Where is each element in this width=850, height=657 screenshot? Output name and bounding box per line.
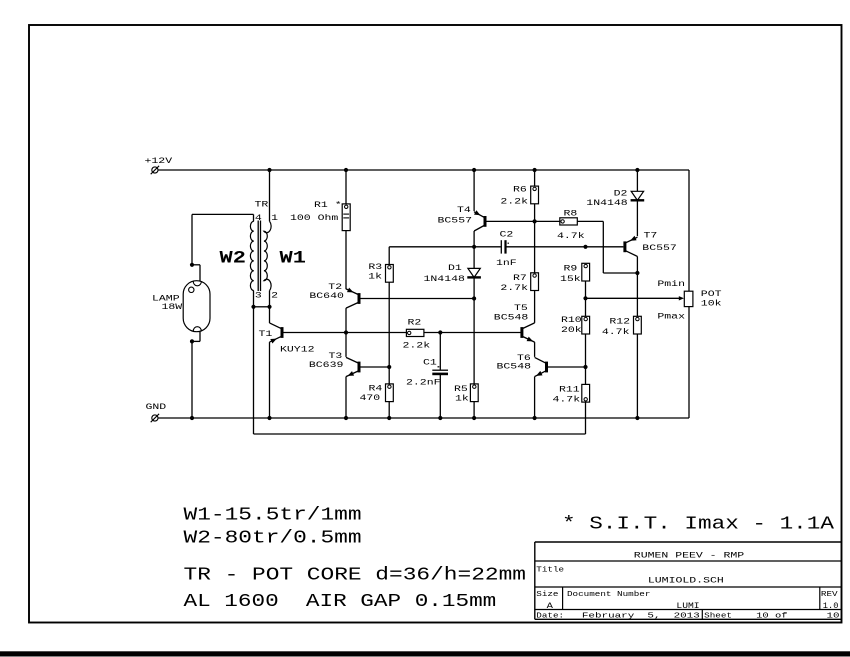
label LAMP [152, 294, 180, 303]
node +12V terminal [151, 166, 159, 174]
svg-text:R9: R9 [564, 264, 578, 273]
note W1 turns [184, 506, 362, 526]
wire TR pin4 stub [253, 214, 255, 221]
wire T6 base [548, 366, 586, 368]
label C1 [423, 358, 437, 367]
wire R12 bottom [636, 334, 638, 418]
wire right edge bottom [688, 307, 690, 418]
label 100 Ohm [290, 213, 338, 223]
svg-text:W2: W2 [220, 249, 246, 269]
note AL gap [184, 592, 497, 612]
transistor T3 [346, 357, 361, 376]
label 1k (R5) [455, 394, 469, 404]
junction C1-GND [438, 416, 442, 420]
svg-text:R7: R7 [513, 274, 527, 283]
svg-text:4.7k: 4.7k [557, 231, 585, 241]
wire R4 bottom [388, 402, 390, 418]
wire bottom return [254, 433, 586, 435]
wire D2 cathode [636, 200, 638, 236]
transistor T7 [623, 236, 637, 257]
label BC640 [309, 292, 344, 301]
resistor R2 [406, 329, 424, 336]
svg-text:Size: Size [536, 591, 558, 599]
wire R2-T5 base [424, 332, 521, 334]
svg-text:1k: 1k [455, 394, 469, 404]
pin 4 [255, 214, 262, 223]
svg-text:10k: 10k [701, 299, 722, 309]
label Pmin [657, 279, 685, 289]
label 15k [560, 274, 581, 284]
wire R10-R11 [585, 334, 587, 384]
svg-text:+12V: +12V [145, 157, 173, 166]
label Document Number [567, 591, 650, 599]
wire right edge top [688, 170, 690, 291]
svg-text:Pmin: Pmin [657, 279, 685, 289]
wire pin3-pin2 [254, 306, 270, 308]
wire lamp top [192, 214, 254, 264]
resistor R12 [634, 316, 642, 334]
label T2 [328, 283, 342, 292]
resistor R3 [386, 265, 394, 283]
svg-text:Sheet: Sheet [704, 612, 732, 620]
transistor T6 [535, 357, 548, 376]
svg-text:R12: R12 [609, 318, 630, 327]
wire POT wiper [586, 297, 680, 299]
potentiometer POT [684, 291, 693, 306]
junction D2-rail [635, 168, 639, 172]
svg-text:A: A [547, 602, 553, 611]
label BC548 (T6) [497, 363, 532, 372]
svg-text:C2: C2 [500, 230, 514, 239]
wire T1 base [284, 332, 407, 334]
svg-text:* S.I.T. Imax - 1.1A: * S.I.T. Imax - 1.1A [562, 515, 834, 535]
wire TR pin3 down [253, 291, 255, 434]
label R1 * [314, 200, 342, 210]
svg-text:2: 2 [271, 291, 278, 300]
label 470 [360, 394, 381, 403]
label Title [536, 566, 564, 574]
junction R9/POT wiper [583, 296, 587, 300]
svg-text:AL 1600 AIR GAP 0.15mm: AL 1600 AIR GAP 0.15mm [184, 592, 497, 612]
svg-text:W2-80tr/0.5mm: W2-80tr/0.5mm [184, 529, 362, 549]
wire D1 cathode [473, 277, 475, 384]
label 1N4148 (D2) [586, 199, 628, 208]
label 1.0 [823, 602, 839, 611]
junction pin3 [251, 305, 255, 309]
resistor R8 [560, 218, 578, 225]
junction R5-GND [472, 416, 476, 420]
svg-text:GND: GND [146, 403, 167, 412]
label R9 [564, 264, 578, 273]
label T4 [457, 206, 471, 215]
svg-text:2.2nF: 2.2nF [406, 379, 441, 388]
wire TR pin1 [269, 170, 271, 221]
svg-text:470: 470 [360, 394, 381, 403]
junction T7 collector [635, 271, 639, 275]
wire C2 net left [389, 246, 501, 248]
transformer TR core [258, 221, 260, 292]
label D2 [614, 189, 628, 198]
label W1 [280, 249, 306, 269]
svg-text:POT: POT [701, 290, 722, 299]
svg-text:February 5, 2013: February 5, 2013 [582, 612, 700, 620]
wire T1 collector [269, 307, 271, 323]
wire T3 emitter [345, 377, 347, 418]
transistor T1 [270, 323, 284, 344]
junction R3/T3 base [387, 365, 391, 369]
wire R8 right [577, 221, 637, 273]
wire GND rail [158, 417, 689, 419]
wire lamp bottom hook [192, 332, 200, 342]
svg-text:2.2k: 2.2k [403, 340, 431, 350]
label +12V [145, 157, 173, 166]
wire T2 collector [345, 308, 347, 332]
resistor R7 [531, 273, 539, 291]
svg-text:LAMP: LAMP [152, 294, 180, 303]
svg-text:TR - POT CORE d=36/h=22mm: TR - POT CORE d=36/h=22mm [184, 566, 527, 586]
wire T3 base [361, 366, 390, 368]
label 4.7k (R8) [557, 231, 585, 241]
label GND [146, 403, 167, 412]
junction pin1-rail [267, 168, 271, 172]
label R7 [513, 274, 527, 283]
wire C1 bottom lead [439, 374, 441, 418]
label 1nF [496, 259, 517, 268]
svg-text:T6: T6 [517, 354, 531, 363]
junction R1-rail [344, 168, 348, 172]
wire T5 emitter [534, 342, 536, 357]
svg-text:R2: R2 [408, 318, 422, 327]
svg-text:18W: 18W [162, 303, 183, 312]
wire T7 collector [636, 256, 638, 316]
svg-text:D1: D1 [448, 264, 462, 273]
wiper arrow [679, 296, 684, 300]
junction T2/T3 collectors [344, 330, 348, 334]
svg-text:W1-15.5tr/1mm: W1-15.5tr/1mm [184, 506, 362, 526]
wire T1 emitter [269, 342, 271, 418]
svg-text:BC640: BC640 [309, 292, 344, 301]
label LUMIOLD.SCH [648, 576, 724, 585]
resistor R9 [582, 263, 590, 281]
wire D2 anode [636, 170, 638, 191]
svg-text:1.0: 1.0 [823, 602, 839, 611]
wire T2 base [361, 298, 475, 300]
wire R5 bottom [473, 402, 475, 418]
svg-text:4.7k: 4.7k [553, 394, 581, 404]
label T5 [514, 304, 528, 313]
label 4.7k (R12) [602, 327, 630, 337]
pin 2 [271, 291, 278, 300]
junction lamp-GND [190, 416, 194, 420]
junction T6-GND [533, 416, 537, 420]
diode D1 [467, 268, 481, 277]
wire R3-R4 [388, 282, 390, 384]
wire lamp top hook [192, 265, 200, 281]
svg-text:T3: T3 [329, 352, 343, 361]
note TR core [184, 566, 527, 586]
svg-text:LUMI: LUMI [676, 602, 699, 611]
junction C1 top [438, 330, 442, 334]
wire R1 top [345, 170, 347, 204]
junction R6-rail [533, 168, 537, 172]
label Sheet [704, 612, 732, 620]
junction pin2 [267, 305, 271, 309]
label POT [701, 290, 722, 299]
label Date: [536, 612, 564, 620]
label BC557 (T4) [438, 216, 473, 225]
svg-text:3: 3 [255, 291, 262, 300]
svg-text:10 of: 10 of [756, 612, 788, 620]
svg-text:T7: T7 [644, 231, 658, 240]
svg-text:4.7k: 4.7k [602, 327, 630, 337]
label 2.2nF [406, 379, 441, 388]
svg-text:15k: 15k [560, 274, 581, 284]
wire T6 emitter [534, 377, 536, 418]
svg-text:LUMIOLD.SCH: LUMIOLD.SCH [648, 576, 724, 585]
label 18W [162, 303, 183, 312]
resistor R11 [582, 384, 590, 402]
transformer TR winding W2 [250, 221, 253, 290]
transistor T5 [520, 323, 534, 342]
transistor T2 [346, 288, 361, 309]
label R12 [609, 318, 630, 327]
svg-text:2.2k: 2.2k [500, 197, 528, 207]
junction T4/C2 wire [472, 245, 476, 249]
junction T4-rail [472, 168, 476, 172]
note W2 turns [184, 529, 362, 549]
label R2 [408, 318, 422, 327]
label R3 [368, 263, 382, 272]
label T3 [329, 352, 343, 361]
junction T3-GND [344, 416, 348, 420]
capacitor C2 [501, 240, 509, 253]
svg-text:RUMEN PEEV - RMP: RUMEN PEEV - RMP [634, 551, 745, 560]
svg-text:BC557: BC557 [438, 216, 473, 225]
resistor R4 [386, 384, 394, 402]
label R6 [513, 186, 527, 195]
wire R6-R7 [534, 204, 536, 273]
svg-text:T2: T2 [328, 283, 342, 292]
svg-text:1: 1 [271, 214, 278, 223]
wire T3 collector [345, 333, 347, 357]
svg-text:R5: R5 [454, 385, 468, 394]
svg-text:T4: T4 [457, 206, 471, 215]
svg-text:BC557: BC557 [642, 244, 677, 253]
junction R9 top [583, 245, 587, 249]
label 20k [561, 325, 582, 335]
label February 5, 2013 [582, 612, 700, 620]
label R11 [559, 386, 580, 395]
svg-text:1N4148: 1N4148 [424, 275, 466, 284]
junction T1-GND [267, 416, 271, 420]
wire C2 net right [506, 246, 624, 248]
label R8 [564, 209, 578, 218]
label R10 [561, 316, 582, 325]
wire TR pin2 [269, 291, 271, 307]
wire C1 top lead [439, 333, 441, 370]
label R5 [454, 385, 468, 394]
label LUMI [676, 602, 699, 611]
svg-text:Document Number: Document Number [567, 591, 650, 599]
svg-text:1nF: 1nF [496, 259, 517, 268]
svg-text:R1 *: R1 * [314, 200, 342, 210]
wire T4 collector [473, 231, 475, 268]
svg-text:BC548: BC548 [494, 314, 529, 323]
label BC639 [309, 361, 344, 370]
svg-text:10: 10 [827, 612, 840, 620]
lamp LA1 envelope [183, 281, 210, 332]
pin 3 [255, 291, 262, 300]
label 10k [701, 299, 722, 309]
resistor R1 [342, 204, 350, 231]
label Pmax [657, 313, 685, 322]
svg-text:1N4148: 1N4148 [586, 199, 628, 208]
svg-text:R11: R11 [559, 386, 580, 395]
svg-text:R6: R6 [513, 186, 527, 195]
wire R9-R10 [585, 281, 587, 316]
svg-text:T1: T1 [259, 330, 273, 339]
label 2.7k (R7) [500, 283, 528, 293]
wire T4 base [487, 220, 560, 222]
wire R1 bottom [345, 231, 347, 290]
note SIT Imax [562, 515, 834, 535]
label 4.7k (R11) [553, 394, 581, 404]
resistor R6 [531, 186, 539, 204]
diode D2 [631, 191, 645, 200]
label 1k (R3) [368, 272, 382, 282]
svg-text:Title: Title [536, 566, 564, 574]
wire R7 bottom [534, 291, 536, 323]
wire T4 emitter [473, 170, 475, 211]
bottom black bar [0, 651, 850, 656]
label TR [255, 200, 269, 209]
svg-text:T5: T5 [514, 304, 528, 313]
label T7 [644, 231, 658, 240]
label D1 [448, 264, 462, 273]
svg-text:2.7k: 2.7k [500, 283, 528, 293]
label RUMEN PEEV - RMP [634, 551, 745, 560]
transformer TR winding W1 [264, 221, 271, 290]
junction D1/T2 base [472, 296, 476, 300]
label Size [536, 591, 558, 599]
svg-text:R10: R10 [561, 316, 582, 325]
label BC548 (T5) [494, 314, 529, 323]
wire R11 bottom [585, 402, 587, 434]
label 2.2k (R6) [500, 197, 528, 207]
label KUY12 [280, 345, 315, 354]
label C2 [500, 230, 514, 239]
label T1 [259, 330, 273, 339]
resistor R5 [470, 384, 478, 402]
svg-text:REV: REV [821, 591, 838, 599]
svg-text:KUY12: KUY12 [280, 345, 315, 354]
svg-text:R3: R3 [368, 263, 382, 272]
svg-text:C1: C1 [423, 358, 437, 367]
svg-text:D2: D2 [614, 189, 628, 198]
svg-text:TR: TR [255, 200, 269, 209]
label BC557 (T7) [642, 244, 677, 253]
svg-text:100 Ohm: 100 Ohm [290, 213, 338, 223]
svg-text:R8: R8 [564, 209, 578, 218]
junction R12-GND [635, 416, 639, 420]
capacitor C1 [432, 367, 448, 374]
label 2.2k (R2) [403, 340, 431, 350]
svg-text:1k: 1k [368, 272, 382, 282]
wire +12V rail [158, 169, 689, 171]
label T6 [517, 354, 531, 363]
title block grid [535, 542, 841, 619]
wire R3 top lead [388, 247, 390, 265]
resistor R10 [582, 316, 590, 334]
svg-text:20k: 20k [561, 325, 582, 335]
label 1N4148 (D1) [424, 275, 466, 284]
svg-text:Pmax: Pmax [657, 313, 685, 322]
svg-text:BC639: BC639 [309, 361, 344, 370]
transistor T4 [474, 210, 487, 231]
label REV [821, 591, 838, 599]
label R4 [369, 384, 383, 393]
junction lamp top [190, 263, 194, 267]
svg-text:BC548: BC548 [497, 363, 532, 372]
svg-text:W1: W1 [280, 249, 306, 269]
junction T4 base/R6/R8 [533, 219, 537, 223]
wire R6 top [534, 170, 536, 186]
label 10 of [756, 612, 788, 620]
junction R4-GND [387, 416, 391, 420]
node GND terminal [151, 414, 159, 422]
svg-text:R4: R4 [369, 384, 383, 393]
junction T6 base/R10/R11 [583, 365, 587, 369]
junction lamp bottom [190, 339, 194, 343]
wire lamp bottom [191, 341, 193, 418]
label 10 total [827, 612, 840, 620]
label W2 [220, 249, 246, 269]
svg-text:Date:: Date: [536, 612, 564, 620]
svg-text:4: 4 [255, 214, 262, 223]
label A [547, 602, 553, 611]
pin 1 [271, 214, 278, 223]
